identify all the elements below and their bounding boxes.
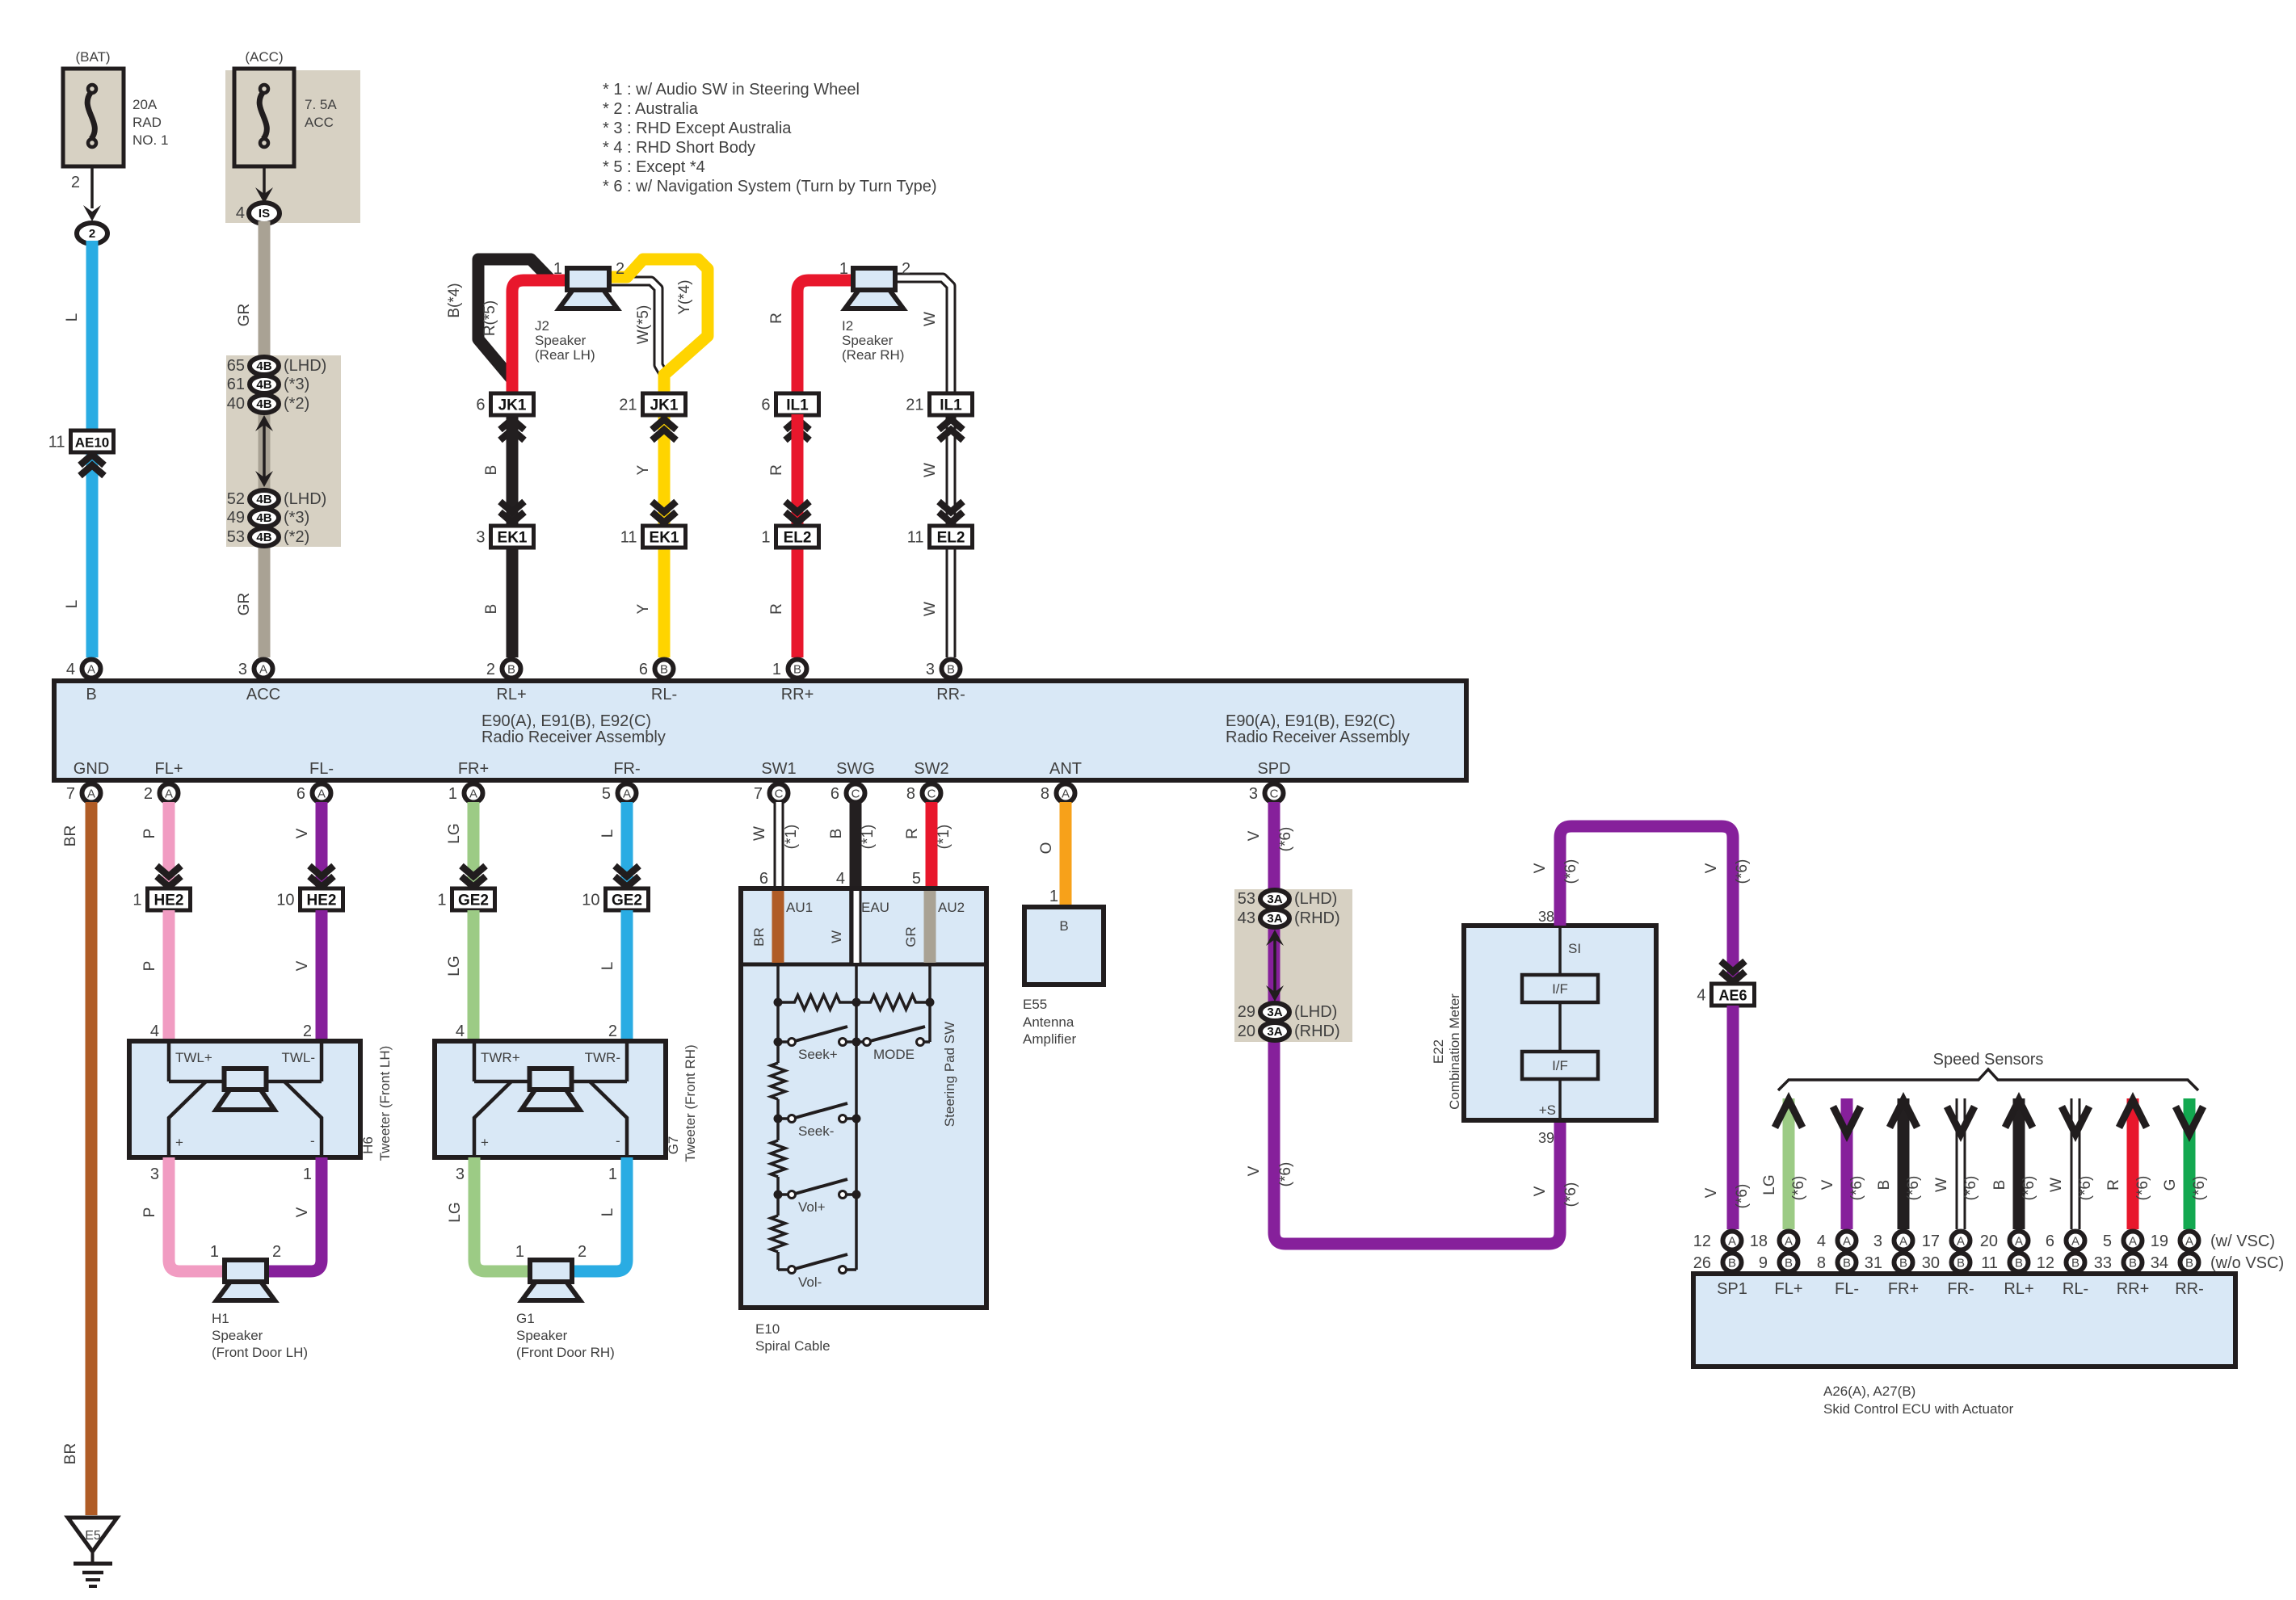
- svg-text:2: 2: [144, 785, 153, 803]
- svg-text:L: L: [599, 1208, 616, 1217]
- svg-text:20A: 20A: [132, 97, 158, 112]
- speaker icon inside G7: [522, 1069, 580, 1110]
- svg-text:RR+: RR+: [781, 686, 814, 703]
- resistor seek ladder 1: [778, 995, 856, 1010]
- svg-text:C: C: [852, 787, 860, 801]
- arrow down on G sensor wire x2710: [2176, 1107, 2203, 1134]
- svg-text:L: L: [64, 600, 81, 609]
- svg-text:V: V: [294, 1207, 311, 1217]
- wire W speed sensor at x2427: [1956, 1098, 1966, 1229]
- wire GR inside E10: [924, 891, 936, 963]
- svg-text:EL2: EL2: [937, 530, 965, 547]
- wire W(*5) rear LH: [610, 281, 664, 375]
- svg-text:IL1: IL1: [940, 397, 962, 414]
- svg-text:5: 5: [912, 870, 921, 888]
- svg-text:Radio Receiver Assembly: Radio Receiver Assembly: [481, 729, 666, 746]
- wire LG FR+ lower: [468, 910, 480, 1041]
- I/F block lower: [1522, 1052, 1598, 1079]
- svg-text:EL2: EL2: [784, 530, 812, 547]
- svg-text:B: B: [86, 686, 96, 703]
- svg-text:AU2: AU2: [938, 900, 965, 915]
- svg-text:3: 3: [476, 529, 485, 547]
- svg-text:ACC: ACC: [246, 686, 280, 703]
- svg-text:GR: GR: [236, 304, 253, 327]
- pin 2(B) RL+: [486, 660, 521, 679]
- tweeter G7 (Front RH) box: [435, 1041, 666, 1157]
- wire B SWG: [850, 802, 862, 888]
- svg-text:4: 4: [456, 1023, 465, 1040]
- resistor mode: [856, 995, 930, 1010]
- pin 6(A) x2569: [2046, 1232, 2085, 1251]
- E10 left rail: [776, 964, 780, 1270]
- pin 3(A) x2356: [1873, 1232, 1913, 1251]
- svg-text:+S: +S: [1539, 1102, 1556, 1118]
- svg-text:V: V: [1532, 863, 1549, 873]
- svg-text:LG: LG: [1761, 1174, 1778, 1195]
- arrow up on LG sensor wire x2214: [1775, 1100, 1802, 1128]
- svg-text:A: A: [2015, 1235, 2023, 1249]
- arrow into HE2 pin10: [309, 866, 334, 876]
- svg-text:43: 43: [1238, 909, 1255, 927]
- svg-text:EK1: EK1: [650, 530, 679, 547]
- svg-text:29: 29: [1238, 1003, 1255, 1021]
- svg-text:Seek-: Seek-: [798, 1123, 834, 1139]
- svg-text:(*1): (*1): [783, 825, 800, 850]
- svg-text:E90(A), E91(B), E92(C): E90(A), E91(B), E92(C): [1226, 712, 1395, 730]
- svg-text:V: V: [1246, 1165, 1263, 1176]
- pin 5(A) x2640: [2103, 1232, 2143, 1251]
- arrow above EL2 pin11: [939, 502, 963, 512]
- svg-text:Amplifier: Amplifier: [1023, 1031, 1076, 1047]
- switch MODE: [856, 1027, 925, 1062]
- svg-text:6: 6: [831, 785, 839, 803]
- switch Seek-: [774, 1115, 783, 1123]
- svg-text:P: P: [141, 961, 158, 972]
- svg-text:FR-: FR-: [613, 760, 640, 778]
- wire B(*4) rear LH: [478, 259, 553, 380]
- svg-text:11: 11: [1981, 1254, 1998, 1272]
- wire R(*5) rear LH: [512, 280, 567, 393]
- connector JK1 pin21: [619, 393, 685, 415]
- pin 9(B) x2214: [1759, 1254, 1798, 1273]
- svg-text:(Rear LH): (Rear LH): [535, 347, 595, 363]
- svg-text:17: 17: [1922, 1233, 1940, 1250]
- connector GE2 pin1: [437, 888, 494, 910]
- svg-text:* 4 : RHD Short Body: * 4 : RHD Short Body: [603, 139, 755, 157]
- svg-text:8: 8: [906, 785, 915, 803]
- fuse 20A RAD NO.1: [63, 69, 124, 166]
- E10 mid rail: [855, 964, 858, 1270]
- svg-text:B: B: [793, 663, 801, 677]
- ground E5: [68, 1518, 117, 1586]
- wire V SPD down to meter: [1274, 802, 1560, 1244]
- svg-text:53: 53: [227, 528, 245, 546]
- svg-text:4B: 4B: [256, 493, 271, 506]
- svg-text:FR-: FR-: [1947, 1280, 1974, 1298]
- svg-text:12: 12: [1693, 1233, 1711, 1250]
- svg-text:* 2 : Australia: * 2 : Australia: [603, 100, 699, 118]
- arrow into GE2 pin1: [461, 866, 486, 876]
- connector IS: [236, 203, 280, 224]
- svg-text:Speaker: Speaker: [516, 1328, 568, 1343]
- svg-text:7. 5A: 7. 5A: [305, 97, 337, 112]
- svg-text:V: V: [1532, 1186, 1549, 1196]
- svg-text:B: B: [483, 465, 500, 476]
- svg-text:2: 2: [578, 1243, 587, 1261]
- svg-text:W: W: [922, 463, 939, 477]
- svg-text:4B: 4B: [256, 511, 271, 525]
- svg-text:L: L: [599, 829, 616, 838]
- pin 1(A) FR+: [448, 784, 483, 804]
- svg-text:(w/o VSC): (w/o VSC): [2210, 1254, 2284, 1272]
- svg-text:53: 53: [1238, 890, 1255, 908]
- svg-text:B: B: [1899, 1257, 1907, 1270]
- svg-text:A: A: [2185, 1235, 2193, 1249]
- svg-text:6: 6: [759, 870, 768, 888]
- svg-text:1: 1: [448, 785, 457, 803]
- svg-text:3A: 3A: [1267, 892, 1282, 906]
- E10 top band divider: [741, 963, 986, 967]
- svg-text:GE2: GE2: [458, 892, 489, 909]
- svg-text:(*6): (*6): [1905, 1176, 1922, 1201]
- svg-text:5: 5: [2103, 1233, 2112, 1250]
- svg-text:(*6): (*6): [1562, 1182, 1579, 1207]
- svg-text:* 5 : Except *4: * 5 : Except *4: [603, 158, 705, 176]
- svg-text:JK1: JK1: [650, 397, 679, 414]
- svg-text:Y: Y: [635, 603, 652, 614]
- svg-text:NO. 1: NO. 1: [132, 132, 168, 148]
- svg-text:7: 7: [66, 785, 75, 803]
- svg-text:A: A: [623, 787, 631, 801]
- wire B speed sensor at x2499: [2013, 1098, 2025, 1229]
- svg-text:3: 3: [1873, 1233, 1882, 1250]
- pin 12(A) SP1: [1693, 1232, 1742, 1251]
- svg-text:B: B: [660, 663, 668, 677]
- wire R speed sensor at x2640: [2127, 1098, 2139, 1229]
- svg-text:1: 1: [1049, 888, 1058, 905]
- svg-text:V: V: [1246, 830, 1263, 841]
- junction arrow between 3A connectors: [1273, 938, 1276, 993]
- svg-text:P: P: [141, 829, 158, 839]
- svg-text:BR: BR: [62, 1443, 79, 1464]
- svg-text:B: B: [1957, 1257, 1965, 1270]
- svg-text:TWL-: TWL-: [281, 1050, 315, 1065]
- connector 4B pin40: [227, 395, 309, 413]
- svg-text:Combination Meter: Combination Meter: [1447, 993, 1462, 1110]
- pin 6(C) SWG: [831, 784, 865, 804]
- svg-text:-: -: [616, 1133, 620, 1149]
- wire R SW2: [926, 802, 938, 888]
- svg-text:SW2: SW2: [914, 760, 948, 778]
- connector GE2 pin10: [582, 888, 648, 910]
- svg-text:(*6): (*6): [2077, 1176, 2094, 1201]
- pin 4(A) x2286: [1817, 1232, 1857, 1251]
- svg-text:(RHD): (RHD): [1294, 909, 1340, 927]
- svg-text:A: A: [259, 663, 267, 677]
- svg-text:W(*5): W(*5): [635, 305, 652, 345]
- svg-text:20: 20: [1238, 1023, 1255, 1040]
- svg-text:4B: 4B: [256, 359, 271, 373]
- pin 5(A) FR-: [602, 784, 637, 804]
- arrow up on B sensor wire x2356: [1890, 1100, 1917, 1128]
- connector 2: [77, 223, 107, 244]
- svg-text:1: 1: [772, 661, 781, 678]
- wire V FL- lower: [316, 910, 328, 1041]
- svg-text:(ACC): (ACC): [245, 49, 283, 65]
- svg-text:LG: LG: [446, 955, 463, 976]
- arrow up on B sensor wire x2499: [2005, 1100, 2033, 1128]
- wire BR ground: [86, 802, 98, 1515]
- brace speed sensors: [1778, 1069, 2198, 1090]
- switch Vol-: [778, 1254, 856, 1290]
- svg-text:(BAT): (BAT): [75, 49, 110, 65]
- svg-text:2: 2: [902, 260, 910, 278]
- pin 6(B) RL-: [639, 660, 674, 679]
- svg-text:E5: E5: [85, 1529, 101, 1543]
- E10 AU1/EAU divider: [849, 888, 852, 964]
- connector AE6 pin4: [1697, 984, 1754, 1006]
- svg-text:E10: E10: [755, 1321, 780, 1337]
- svg-text:30: 30: [1922, 1254, 1940, 1272]
- wire L to G1: [573, 1157, 627, 1271]
- svg-text:B: B: [2015, 1257, 2023, 1270]
- svg-text:FL+: FL+: [154, 760, 183, 778]
- arrow above EL2 pin1: [785, 502, 809, 512]
- svg-text:RAD: RAD: [132, 115, 162, 130]
- connector 4B pin49: [227, 509, 309, 527]
- svg-text:B: B: [2185, 1257, 2193, 1270]
- svg-text:Speaker: Speaker: [842, 333, 894, 348]
- svg-text:4: 4: [1697, 987, 1705, 1005]
- svg-text:AU1: AU1: [786, 900, 813, 915]
- wire LG to G1: [474, 1157, 530, 1271]
- svg-text:JK1: JK1: [498, 397, 527, 414]
- svg-text:6: 6: [296, 785, 305, 803]
- svg-text:(*6): (*6): [1848, 1176, 1865, 1201]
- pin 17(A) x2427: [1922, 1232, 1970, 1251]
- svg-text:40: 40: [227, 395, 245, 413]
- svg-text:W: W: [922, 602, 939, 616]
- svg-text:W: W: [1933, 1178, 1950, 1192]
- svg-text:W: W: [751, 826, 768, 841]
- svg-text:RL+: RL+: [2004, 1280, 2033, 1298]
- svg-text:B: B: [828, 829, 845, 839]
- arrow into AE10: [80, 455, 104, 465]
- svg-text:3: 3: [456, 1165, 465, 1183]
- svg-text:(*2): (*2): [284, 395, 309, 413]
- pin 3(C) SPD: [1249, 784, 1284, 804]
- svg-text:E22: E22: [1431, 1039, 1446, 1064]
- wire W SW1: [774, 802, 784, 888]
- svg-text:BR: BR: [62, 825, 79, 846]
- svg-text:R: R: [2105, 1179, 2122, 1191]
- svg-text:B: B: [1785, 1257, 1793, 1270]
- wire W speed sensor at x2569: [2071, 1098, 2081, 1229]
- svg-text:B: B: [1059, 918, 1068, 934]
- pin 3(B) RR-: [926, 660, 961, 679]
- svg-text:1: 1: [761, 529, 770, 547]
- svg-text:A: A: [317, 787, 326, 801]
- resistor ladder 4: [771, 1216, 785, 1252]
- pin 11(B) x2499: [1981, 1254, 2028, 1273]
- svg-text:21: 21: [619, 397, 637, 414]
- svg-text:(*6): (*6): [2134, 1176, 2151, 1201]
- svg-text:RR-: RR-: [2175, 1280, 2204, 1298]
- svg-text:(*6): (*6): [1962, 1176, 1979, 1201]
- svg-text:R(*5): R(*5): [481, 300, 498, 336]
- svg-text:A: A: [469, 787, 477, 801]
- junction arrow between 4B connectors: [263, 423, 266, 478]
- wire fuse to connector IS: [263, 166, 266, 194]
- svg-text:TWR+: TWR+: [481, 1050, 520, 1065]
- arrow above EK1 pin11: [652, 502, 676, 512]
- wire V speed sensor at x2286: [1841, 1098, 1853, 1229]
- svg-text:FR+: FR+: [458, 760, 489, 778]
- svg-text:G1: G1: [516, 1311, 535, 1326]
- svg-text:4: 4: [1817, 1233, 1826, 1250]
- connector 3A pin53: [1238, 890, 1338, 908]
- arrow below JK1 pin6: [500, 419, 524, 430]
- svg-text:2: 2: [608, 1023, 617, 1040]
- svg-text:3A: 3A: [1267, 1025, 1282, 1039]
- svg-text:(*6): (*6): [2021, 1176, 2037, 1201]
- svg-text:(*6): (*6): [1734, 859, 1751, 884]
- wire Y(*4) rear LH: [609, 259, 708, 393]
- connector EK1 pin3: [476, 526, 533, 548]
- svg-text:4B: 4B: [256, 531, 271, 544]
- svg-text:L: L: [599, 962, 616, 971]
- svg-text:11: 11: [620, 529, 637, 547]
- svg-text:Vol+: Vol+: [798, 1199, 826, 1215]
- background shading 3A connector area: [1234, 889, 1352, 1042]
- resistor ladder 3: [771, 1140, 785, 1177]
- svg-text:B: B: [947, 663, 955, 677]
- svg-text:E90(A), E91(B), E92(C): E90(A), E91(B), E92(C): [481, 712, 651, 730]
- svg-text:19: 19: [2151, 1233, 2168, 1250]
- svg-text:(LHD): (LHD): [1294, 890, 1337, 908]
- wire W rear RH: [894, 278, 951, 393]
- svg-text:C: C: [927, 787, 936, 801]
- wire V to H1: [267, 1157, 322, 1271]
- pin 7(C) SW1: [754, 784, 788, 804]
- svg-text:I/F: I/F: [1552, 981, 1568, 997]
- svg-text:V: V: [294, 828, 311, 838]
- wire P FL+ upper: [163, 802, 175, 888]
- svg-text:61: 61: [227, 376, 245, 393]
- svg-text:* 3 : RHD Except Australia: * 3 : RHD Except Australia: [603, 120, 792, 137]
- wire LG FR+ upper: [468, 802, 480, 888]
- svg-text:10: 10: [582, 892, 599, 909]
- svg-text:4: 4: [150, 1023, 159, 1040]
- wire G speed sensor at x2710: [2184, 1098, 2196, 1229]
- wire O antenna: [1060, 802, 1072, 907]
- speaker I2 (Rear RH): [845, 268, 903, 309]
- wire R rear RH: [797, 280, 853, 393]
- svg-text:A: A: [87, 663, 95, 677]
- svg-text:11: 11: [48, 434, 65, 451]
- arrow below JK1 pin21: [652, 419, 676, 430]
- svg-text:(*6): (*6): [1790, 1176, 1807, 1201]
- svg-text:B(*4): B(*4): [446, 283, 463, 317]
- connector JK1 pin6: [476, 393, 533, 415]
- svg-text:GR: GR: [903, 926, 919, 947]
- svg-text:AE6: AE6: [1718, 988, 1747, 1004]
- svg-text:SW1: SW1: [761, 760, 796, 778]
- svg-text:2: 2: [303, 1023, 312, 1040]
- svg-text:(LHD): (LHD): [1294, 1003, 1337, 1021]
- antenna amplifier E55 box: [1024, 907, 1104, 985]
- svg-text:4: 4: [836, 870, 845, 888]
- pin 8(A) ANT: [1041, 784, 1075, 804]
- background shading ACC fuse area: [225, 70, 360, 223]
- svg-text:2: 2: [71, 174, 80, 191]
- svg-text:3: 3: [238, 661, 247, 678]
- svg-text:4B: 4B: [256, 397, 271, 411]
- connector 3A pin20: [1238, 1023, 1340, 1040]
- svg-text:Steering Pad SW: Steering Pad SW: [942, 1022, 957, 1127]
- svg-text:ACC: ACC: [305, 115, 334, 130]
- arrow above EK1 pin3: [500, 502, 524, 512]
- svg-text:EAU: EAU: [861, 900, 889, 915]
- arrow down on W sensor wire x2427: [1947, 1107, 1974, 1134]
- arrow up on R sensor wire x2640: [2119, 1100, 2147, 1128]
- wire L (battery feed): [86, 241, 99, 657]
- connector EL2 pin11: [907, 526, 973, 548]
- svg-text:1: 1: [839, 260, 848, 278]
- svg-text:B: B: [1991, 1180, 2008, 1191]
- E10 EAU/AU2 divider: [924, 888, 927, 964]
- pin 30(B) x2427: [1922, 1254, 1970, 1273]
- svg-text:A: A: [1785, 1235, 1793, 1249]
- wire P FL+ lower: [163, 910, 175, 1041]
- svg-text:W: W: [2048, 1178, 2065, 1192]
- svg-text:LG: LG: [446, 823, 463, 843]
- arrow into AE6: [1721, 961, 1745, 972]
- pin 19(A) x2710: [2151, 1232, 2199, 1251]
- svg-text:34: 34: [2151, 1254, 2168, 1272]
- svg-text:B: B: [1728, 1257, 1736, 1270]
- svg-text:11: 11: [907, 529, 924, 547]
- svg-text:SPD: SPD: [1257, 760, 1290, 778]
- svg-text:(*1): (*1): [936, 825, 952, 850]
- I/F block upper: [1522, 975, 1598, 1002]
- switch Vol+: [774, 1191, 783, 1199]
- svg-text:(*6): (*6): [1277, 827, 1294, 852]
- svg-text:(Rear RH): (Rear RH): [842, 347, 904, 363]
- fuse 7.5A ACC: [234, 69, 294, 166]
- skid control ECU box: [1693, 1274, 2235, 1367]
- svg-text:1: 1: [132, 892, 141, 909]
- svg-text:A26(A), A27(B): A26(A), A27(B): [1823, 1384, 1915, 1399]
- svg-text:W: W: [829, 930, 844, 943]
- svg-text:(*6): (*6): [1734, 1184, 1751, 1209]
- svg-text:R: R: [768, 313, 785, 324]
- svg-text:4: 4: [236, 204, 245, 222]
- svg-text:FR+: FR+: [1888, 1280, 1919, 1298]
- svg-text:A: A: [1728, 1235, 1736, 1249]
- svg-text:52: 52: [227, 490, 245, 508]
- svg-text:20: 20: [1980, 1233, 1998, 1250]
- svg-text:B: B: [1876, 1180, 1893, 1191]
- svg-text:2: 2: [616, 260, 624, 278]
- arrow down on W sensor wire x2569: [2062, 1107, 2089, 1134]
- svg-text:Tweeter (Front LH): Tweeter (Front LH): [377, 1046, 393, 1161]
- svg-text:IS: IS: [259, 207, 270, 220]
- svg-text:MODE: MODE: [873, 1047, 915, 1062]
- svg-text:18: 18: [1750, 1233, 1768, 1250]
- pin 26(B) SP1: [1693, 1254, 1742, 1273]
- svg-text:33: 33: [2094, 1254, 2112, 1272]
